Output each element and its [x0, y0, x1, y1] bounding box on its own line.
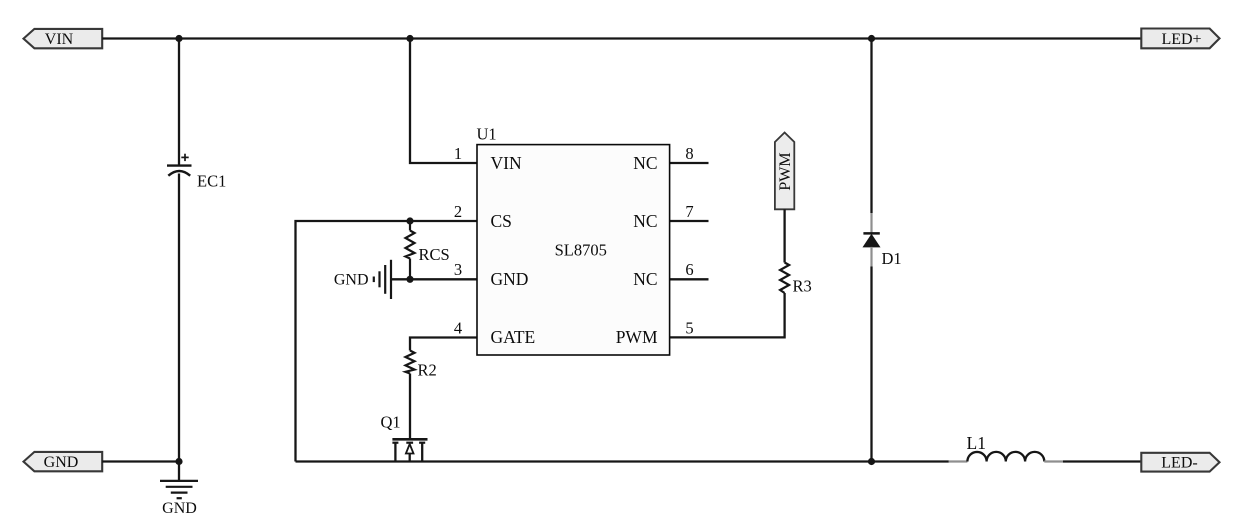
- wire pin8 stub: [670, 162, 709, 164]
- node junction top pin1 branch: [406, 35, 413, 42]
- port LED+: [1141, 29, 1219, 49]
- svg-text:6: 6: [685, 260, 693, 279]
- wire D1 bottom lead: [870, 247, 872, 267]
- svg-text:CS: CS: [491, 211, 512, 231]
- resistor R2: [406, 351, 437, 380]
- wire R3 to pin5: [670, 293, 785, 337]
- svg-text:NC: NC: [633, 153, 657, 173]
- svg-text:R2: R2: [418, 361, 437, 380]
- resistor R3: [780, 263, 812, 296]
- wire L1 left lead (gray): [949, 460, 968, 462]
- wire L1 right lead (gray): [1044, 460, 1063, 462]
- wire top rail VIN to LED+: [102, 37, 1141, 39]
- svg-text:Q1: Q1: [381, 413, 401, 432]
- svg-text:LED-: LED-: [1161, 455, 1197, 472]
- node junction CS / RCS top: [406, 217, 413, 224]
- svg-text:1: 1: [454, 144, 462, 163]
- wire pin3 GND: [391, 278, 477, 280]
- diode D1: [863, 233, 901, 268]
- wire EC1 bottom lead down to GND node: [178, 174, 180, 462]
- capacitor EC1: [167, 154, 226, 191]
- svg-text:U1: U1: [477, 125, 497, 144]
- wire pin1 branch: [410, 39, 477, 164]
- svg-text:SL8705: SL8705: [555, 240, 607, 259]
- wire CS loop left: [296, 221, 478, 462]
- svg-text:GATE: GATE: [491, 327, 536, 347]
- node junction bottom D1: [868, 458, 875, 465]
- transistor Q1: [381, 413, 428, 462]
- wire pin6 stub: [670, 278, 709, 280]
- port VIN: [24, 29, 103, 48]
- svg-text:NC: NC: [633, 211, 657, 231]
- svg-text:VIN: VIN: [491, 153, 522, 173]
- ground symbol GND bottom: [160, 462, 198, 518]
- svg-text:4: 4: [454, 318, 462, 337]
- node junction pin3 / RCS bottom: [406, 276, 413, 283]
- wire pin7 stub: [670, 220, 709, 222]
- inductor L1: [967, 433, 1045, 462]
- wire D1 top lead: [870, 39, 872, 214]
- resistor RCS: [406, 221, 450, 279]
- svg-text:L1: L1: [967, 433, 986, 453]
- node junction GND/EC1: [175, 458, 182, 465]
- wire bottom rail: [296, 460, 949, 462]
- svg-text:VIN: VIN: [45, 31, 74, 48]
- svg-text:GND: GND: [162, 500, 197, 517]
- flag PWM: [775, 133, 794, 210]
- svg-text:D1: D1: [882, 249, 902, 268]
- svg-text:RCS: RCS: [419, 245, 450, 264]
- ground GND at pin3 (rotated bars): [334, 260, 391, 299]
- svg-text:R3: R3: [793, 277, 812, 296]
- node junction top D1: [868, 35, 875, 42]
- svg-text:GND: GND: [334, 272, 369, 289]
- wire EC1 top lead: [178, 39, 180, 166]
- port LED-: [1141, 453, 1219, 472]
- wire R2 to Q1 gate: [409, 374, 411, 439]
- svg-text:7: 7: [685, 202, 693, 221]
- svg-text:EC1: EC1: [197, 171, 226, 190]
- wire L1 to LED-: [1063, 460, 1141, 462]
- op-amp U1 (IC SL8705 body): [477, 125, 670, 355]
- svg-text:8: 8: [685, 144, 693, 163]
- wire pin4 to R2: [410, 338, 477, 351]
- svg-text:2: 2: [454, 202, 462, 221]
- svg-text:NC: NC: [633, 269, 657, 289]
- svg-text:5: 5: [685, 319, 693, 338]
- svg-text:PWM: PWM: [616, 327, 658, 347]
- wire GND port to node: [102, 460, 179, 462]
- node junction top EC1: [175, 35, 182, 42]
- svg-text:PWM: PWM: [777, 152, 794, 190]
- svg-text:GND: GND: [491, 269, 529, 289]
- svg-text:3: 3: [454, 260, 462, 279]
- port GND: [24, 452, 103, 471]
- wire PWM flag to R3: [783, 209, 785, 262]
- svg-text:GND: GND: [44, 454, 79, 471]
- svg-text:LED+: LED+: [1161, 31, 1201, 48]
